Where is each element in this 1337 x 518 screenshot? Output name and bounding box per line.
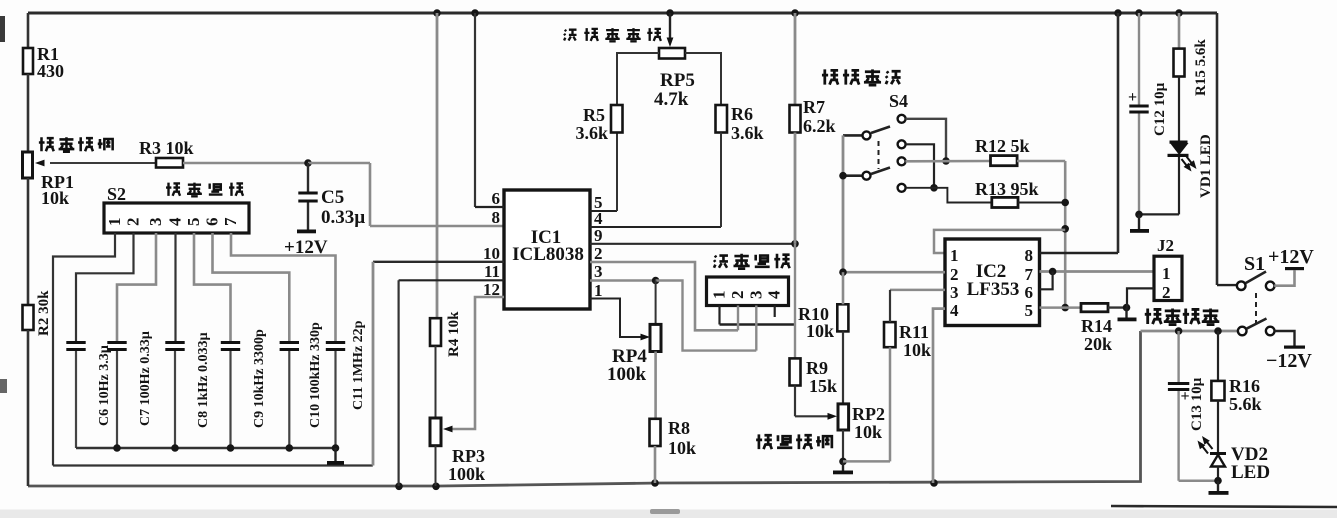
- svg-text:8: 8: [492, 208, 501, 227]
- svg-text:R4 10k: R4 10k: [446, 311, 462, 357]
- switch S1 upper pole: [1237, 281, 1246, 290]
- junction pin5/vert: [1061, 304, 1069, 312]
- junction top rail x437: [433, 9, 441, 17]
- wire left rail mid1: [27, 74, 30, 152]
- svg-text:C10 100kHz 330p: C10 100kHz 330p: [308, 322, 323, 428]
- wire S2 pin2 to C6: [76, 233, 134, 341]
- svg-text:R3 10k: R3 10k: [139, 138, 194, 158]
- junction c2/c4: [930, 184, 938, 192]
- svg-text:7: 7: [221, 217, 240, 226]
- svg-text:10k: 10k: [668, 438, 696, 458]
- wire output bus: [1141, 330, 1239, 333]
- svg-text:4: 4: [765, 290, 784, 299]
- svg-text:RP5: RP5: [660, 70, 695, 91]
- capacitor C7: [107, 341, 126, 344]
- LED VD2: [1210, 452, 1226, 455]
- arrow VD1 emission 1: [1182, 159, 1189, 168]
- junction top rail x1139: [1135, 9, 1143, 17]
- resistor R12: [991, 156, 1018, 166]
- wire C13 bottom to VD2 node: [1179, 479, 1218, 482]
- wire VD1 to C12 node: [1139, 213, 1179, 215]
- wire IC2 pin8: [1040, 252, 1119, 254]
- wire rail to S1 upper: [1217, 284, 1238, 286]
- potentiometer RP4 body: [650, 324, 661, 351]
- wire stub to ground: [1125, 308, 1127, 318]
- lever S4 pole2: [871, 168, 890, 175]
- svg-text:3: 3: [746, 291, 765, 300]
- wire VD1 to ground node: [1178, 157, 1180, 214]
- svg-text:3: 3: [146, 218, 165, 227]
- wire RP5 left to R5: [617, 53, 659, 105]
- arrow RP3 wiper: [443, 426, 453, 433]
- junction top rail x795: [791, 9, 799, 17]
- label 幅度细调 amplitude fine tune: [756, 434, 832, 449]
- svg-text:S1: S1: [1244, 253, 1265, 275]
- svg-text:1: 1: [1162, 264, 1171, 283]
- wire S4 common down to IC2 pin2 node: [842, 135, 845, 272]
- wire S2 pin7 to C11: [231, 233, 336, 341]
- junction c1/R12: [942, 157, 950, 165]
- svg-text:R7: R7: [803, 97, 825, 117]
- wire pin3 node down to RP4: [655, 281, 657, 325]
- svg-text:−12V: −12V: [1266, 350, 1312, 372]
- wire S2 pin6 to C10: [213, 233, 290, 341]
- wire RP3 to bottom rail: [435, 446, 437, 486]
- switch S2 selector box: [104, 203, 249, 233]
- potentiometer RP5 body: [659, 48, 685, 59]
- wire R10 to RP2: [842, 331, 844, 404]
- scan artifact left edge mid: [0, 379, 7, 393]
- wire S2 pin3 to C7: [117, 233, 156, 341]
- wire S3 pin4 stub: [774, 306, 776, 318]
- switch S1 upper contact: [1266, 282, 1275, 291]
- resistor R6: [716, 105, 728, 133]
- wire S2 pin4 to C8: [174, 233, 176, 341]
- junction R13/vert: [1061, 199, 1069, 207]
- capacitor C11: [326, 341, 345, 344]
- arrow RP4 wiper: [641, 334, 651, 341]
- wire ground node to R11: [843, 460, 890, 463]
- wire IC1 pin3 triangle: [590, 279, 656, 282]
- page edge line bottom right: [1111, 506, 1337, 507]
- switch S4 contact2: [898, 140, 906, 148]
- svg-text:3: 3: [950, 283, 959, 302]
- svg-text:C5: C5: [321, 187, 344, 208]
- wire R16 to VD2: [1217, 401, 1219, 453]
- switch S1 lower pole: [1238, 327, 1247, 336]
- svg-text:10k: 10k: [41, 188, 69, 208]
- svg-text:R13 95k: R13 95k: [975, 179, 1039, 199]
- scan artifact bottom center: [650, 509, 680, 514]
- svg-text:ICL8038: ICL8038: [512, 244, 584, 265]
- wire right rail to S1: [1216, 13, 1219, 285]
- arrow RP5 wiper: [667, 38, 674, 48]
- junction S4 poles: [839, 172, 847, 180]
- capacitor C9: [221, 341, 240, 344]
- svg-text:R14: R14: [1081, 316, 1112, 336]
- wire S4 c1 to R12 line: [906, 119, 947, 161]
- svg-text:R9: R9: [806, 358, 828, 378]
- switch S1 lower contact: [1266, 327, 1275, 336]
- junction R14/J2pin2/ground: [1123, 304, 1131, 312]
- junction top rail x1179: [1175, 9, 1183, 17]
- svg-text:4.7k: 4.7k: [654, 89, 689, 110]
- label 频率选择 frequency select: [166, 183, 243, 197]
- wire feedback vertical: [1064, 161, 1067, 308]
- wire S2 pin1 down-left: [53, 233, 115, 466]
- switch S4 contact1: [898, 115, 906, 123]
- svg-text:C12 10µ: C12 10µ: [1152, 82, 1168, 136]
- svg-text:LED: LED: [1231, 462, 1270, 483]
- potentiometer RP2 body: [838, 404, 849, 430]
- ground under RP2: [833, 471, 853, 475]
- label 信号输出 signal output: [1145, 308, 1220, 324]
- wire R13 right: [1018, 202, 1065, 204]
- svg-text:RP2: RP2: [852, 404, 885, 424]
- wire -12V bottom rail: [28, 331, 1141, 486]
- junction cap rail x175: [171, 444, 179, 452]
- arrow RP1 wiper: [35, 160, 45, 167]
- wire IC1 pin4 to R6: [590, 226, 721, 228]
- resistor R13: [992, 197, 1018, 207]
- wire stub to ground: [1138, 214, 1140, 229]
- junction feedback/vert: [1061, 225, 1069, 233]
- junction pin3/RP4: [652, 277, 660, 285]
- wire IC1 pin9 square wave: [590, 243, 795, 245]
- svg-text:2: 2: [594, 244, 603, 263]
- junction top rail x670: [666, 9, 674, 17]
- svg-text:3.6k: 3.6k: [575, 123, 608, 143]
- wire IC2 pin5 to R14: [1040, 306, 1082, 309]
- svg-text:12: 12: [483, 280, 500, 299]
- svg-text:6: 6: [1025, 283, 1034, 302]
- wire RP2 to ground node: [842, 430, 844, 461]
- wire R3 to C5 node: [183, 162, 308, 165]
- junction RP2/R11 ground: [839, 458, 847, 466]
- wire R9 to RP2 wiper: [794, 386, 796, 417]
- svg-text:R15 5.6k: R15 5.6k: [1193, 39, 1209, 96]
- wire +12V top rail: [28, 12, 1217, 15]
- capacitor C10: [280, 341, 299, 344]
- link S4 dashed: [878, 141, 880, 169]
- wire R6 to pin4: [720, 133, 722, 228]
- svg-text:+: +: [1128, 89, 1137, 106]
- svg-text:C7 100Hz 0.33µ: C7 100Hz 0.33µ: [138, 331, 153, 426]
- resistor R4: [430, 318, 441, 346]
- svg-text:6.2k: 6.2k: [803, 116, 836, 136]
- wire S3 pin2 stub: [737, 306, 739, 331]
- scan artifact left edge top: [0, 16, 5, 42]
- svg-text:8: 8: [1025, 246, 1034, 265]
- lever S1 upper: [1246, 272, 1266, 284]
- resistor R11: [884, 322, 896, 347]
- svg-text:C8 1kHz 0.033µ: C8 1kHz 0.033µ: [196, 332, 211, 428]
- ground under R14 node: [1118, 318, 1137, 322]
- svg-text:430: 430: [37, 61, 64, 81]
- wire tap to R16: [1217, 331, 1219, 381]
- svg-text:C13 10µ: C13 10µ: [1189, 377, 1205, 431]
- svg-text:R11: R11: [899, 322, 929, 342]
- svg-text:C9 10kHz 3300p: C9 10kHz 3300p: [252, 329, 267, 428]
- capacitor C6: [66, 341, 85, 344]
- wire pin3 to S3 pin3: [656, 281, 757, 351]
- svg-text:2: 2: [950, 265, 959, 284]
- wire left rail top: [27, 13, 30, 48]
- wire left rail mid2: [27, 178, 30, 305]
- svg-text:7: 7: [1025, 265, 1034, 284]
- svg-text:2: 2: [124, 218, 143, 227]
- wire J2 pin2 down: [1127, 288, 1154, 307]
- junction cap rail x289.3: [286, 444, 294, 452]
- svg-text:6: 6: [492, 189, 501, 208]
- wire bend down: [369, 163, 372, 226]
- arrow VD2 emission 2: [1201, 444, 1209, 454]
- junction cap rail x230.5: [227, 444, 235, 452]
- op-amp IC1 ICL8038 box: [504, 190, 590, 309]
- junction VD2 ground node: [1214, 477, 1222, 485]
- svg-text:C11 1MHz 22p: C11 1MHz 22p: [351, 320, 366, 410]
- wire S3 pin1 stub: [718, 306, 720, 325]
- label 幅值衰减 amplitude attenuation: [822, 69, 901, 85]
- wire IC1 pin11: [399, 279, 504, 281]
- junction pin6/pin7: [1049, 268, 1057, 276]
- wire stub to ground: [842, 461, 844, 470]
- wire IC2 pin4 to bottom rail: [933, 309, 945, 483]
- wire pin8 up to top rail: [1117, 13, 1120, 253]
- wire IC1 pin6 stub: [475, 206, 504, 208]
- junction pin2 node: [839, 268, 847, 276]
- wire R11 top: [889, 290, 891, 322]
- potentiometer RP1 body: [23, 152, 33, 178]
- wire S4 c4 to R13: [906, 188, 992, 203]
- svg-text:20k: 20k: [1084, 334, 1112, 354]
- wire rail to R7: [794, 13, 797, 105]
- wire cap common rail: [76, 447, 336, 450]
- resistor R3: [156, 158, 183, 168]
- wire S2 pin5 to C9: [194, 233, 231, 341]
- junction node C5: [304, 159, 312, 167]
- wire R8 to bottom rail: [654, 446, 657, 483]
- wire R7 to pin9 junction: [794, 133, 797, 244]
- switch S4 contact3: [898, 157, 906, 165]
- wire pin9 node down to R9: [794, 244, 796, 359]
- svg-text:R16: R16: [1229, 376, 1260, 396]
- capacitor C13 electrolytic: [1177, 331, 1179, 382]
- link S1 dashed: [1255, 293, 1257, 324]
- wire C11 to ground: [334, 448, 336, 461]
- svg-text:5: 5: [1025, 301, 1034, 320]
- wire top rail to R4: [436, 13, 439, 318]
- resistor R7: [790, 105, 801, 133]
- resistor R1: [23, 48, 33, 74]
- svg-text:4: 4: [950, 301, 959, 320]
- ground under C11: [327, 461, 344, 465]
- wire RP2 wiper horizontal: [795, 415, 831, 417]
- lever S4 pole1: [871, 127, 890, 134]
- svg-text:LF353: LF353: [967, 279, 1020, 300]
- svg-text:100k: 100k: [607, 364, 647, 385]
- switch S3 waveform selector box: [707, 277, 789, 306]
- wire pin2 node to R10: [842, 272, 845, 304]
- svg-text:6: 6: [203, 218, 222, 227]
- svg-text:10: 10: [483, 244, 500, 263]
- junction bottom rail x436: [432, 483, 440, 491]
- svg-text:1: 1: [594, 281, 603, 300]
- svg-text:2: 2: [728, 291, 747, 300]
- wire R14 right: [1108, 306, 1127, 308]
- wire IC1 pin5 stub: [590, 210, 617, 212]
- -12V supply bar: [1284, 346, 1305, 349]
- wire VD2 to node: [1217, 467, 1219, 481]
- junction R16 tap: [1214, 327, 1222, 335]
- arrow RP2 wiper: [828, 413, 838, 420]
- wire S4 c2 down: [906, 144, 935, 188]
- potentiometer RP3 body: [430, 418, 441, 446]
- svg-text:5.6k: 5.6k: [1229, 394, 1262, 414]
- wire RP5 right to R6: [685, 53, 721, 105]
- LED VD1: [1170, 141, 1188, 144]
- wire IC2 pin2 input: [843, 271, 945, 274]
- wire RP4 to R8: [654, 352, 657, 419]
- label 波型选择 waveform select: [714, 254, 790, 269]
- svg-text:4: 4: [166, 217, 185, 226]
- op-amp IC2 LF353 box: [945, 239, 1040, 326]
- switch S4 pole1 contact: [863, 131, 871, 139]
- svg-text:S2: S2: [107, 184, 126, 204]
- svg-text:RP3: RP3: [452, 446, 485, 466]
- svg-text:R8: R8: [668, 418, 690, 438]
- svg-text:R6: R6: [731, 104, 753, 124]
- svg-text:0.33µ: 0.33µ: [321, 207, 365, 228]
- svg-text:9: 9: [594, 226, 603, 245]
- wire IC2 pin1 feedback: [934, 230, 1065, 253]
- resistor R16: [1211, 381, 1224, 401]
- ground under C12: [1130, 229, 1149, 233]
- capacitor C8: [165, 341, 184, 344]
- +12V supply bar at C5: [297, 230, 316, 234]
- wire left rail bottom: [27, 330, 30, 486]
- wire top rail to IC1 pin6: [474, 13, 476, 207]
- wire S3 pin3 stub: [755, 306, 757, 351]
- wire S4 pole1: [843, 134, 863, 137]
- wire R12 right: [1017, 160, 1065, 163]
- wire to IC1 pin8: [370, 225, 504, 228]
- wire IC1 pin2 sine to S3 pin2: [590, 262, 738, 330]
- resistor R2: [23, 305, 34, 330]
- svg-text:J2: J2: [1157, 236, 1174, 255]
- switch S4 contact4: [898, 184, 906, 192]
- page bottom band: [0, 510, 1337, 518]
- wire R15 to VD1: [1178, 77, 1180, 141]
- arrow VD2 emission 1: [1205, 440, 1213, 450]
- wire S3 pin1 to square node: [720, 323, 796, 325]
- wire stub to ground: [1217, 481, 1219, 491]
- wire S1 upper to +12V: [1274, 270, 1294, 285]
- svg-text:10k: 10k: [854, 422, 882, 442]
- junction C12/VD1: [1135, 211, 1143, 219]
- junction C13 tap: [1175, 327, 1183, 335]
- svg-text:5: 5: [184, 218, 203, 227]
- wire RP1 wiper to R3: [50, 162, 156, 164]
- ground under VD2: [1209, 491, 1229, 495]
- svg-text:1: 1: [710, 291, 729, 300]
- lever S1 lower: [1247, 319, 1267, 329]
- wire S2 common bottom line: [53, 464, 373, 466]
- svg-text:100k: 100k: [448, 464, 485, 484]
- svg-text:R2 30k: R2 30k: [36, 290, 52, 336]
- wire IC2 pin7 to J2: [1040, 270, 1155, 273]
- junction bottom rail x934: [930, 479, 938, 487]
- wire R11 bottom: [889, 347, 892, 461]
- connector J2 box: [1154, 256, 1182, 300]
- +12V supply bar: [1285, 267, 1304, 270]
- wire IC2 pin6 to pin7: [1040, 272, 1053, 290]
- svg-text:15k: 15k: [809, 376, 837, 396]
- svg-text:S4: S4: [889, 91, 908, 111]
- svg-text:VD1 LED: VD1 LED: [1198, 134, 1214, 198]
- wire S4 pole2: [843, 174, 863, 177]
- svg-text:10k: 10k: [903, 340, 931, 360]
- wire IC1 pin10 down to S2 common: [372, 262, 375, 466]
- junction bottom rail x655: [651, 479, 659, 487]
- resistor R9: [790, 358, 801, 385]
- wire IC1 pin12 to RP3 wiper: [448, 297, 504, 429]
- svg-text:+12V: +12V: [1268, 246, 1314, 268]
- resistor R8: [650, 419, 661, 446]
- junction cap rail x117: [113, 444, 121, 452]
- wire R4 to RP3: [435, 346, 437, 418]
- svg-text:10k: 10k: [806, 321, 834, 341]
- wire IC1 pin10: [373, 261, 504, 263]
- wire rail to RP5 wiper: [669, 13, 671, 39]
- wire S1 lower to -12V: [1275, 331, 1295, 346]
- wire IC1 pin11 down to bottom rail: [398, 280, 400, 486]
- label 频率细调 frequency fine tune: [39, 137, 113, 151]
- resistor R5: [611, 105, 623, 133]
- capacitor C12 electrolytic: [1138, 13, 1140, 105]
- junction bottom rail x399: [395, 483, 403, 491]
- wire S4 c3 to R12: [906, 160, 991, 163]
- junction pin9/R7: [791, 240, 799, 248]
- junction cap rail x335.5: [332, 444, 340, 452]
- svg-text:2: 2: [1162, 283, 1171, 302]
- svg-text:1: 1: [105, 218, 124, 227]
- resistor R15: [1174, 49, 1185, 77]
- arrow VD1 emission 2: [1187, 157, 1194, 166]
- svg-text:3.6k: 3.6k: [731, 123, 764, 143]
- resistor R14: [1081, 303, 1108, 311]
- svg-text:R5: R5: [583, 105, 605, 125]
- resistor R10: [837, 304, 848, 331]
- wire IC1 pin1 to RP4 wiper: [590, 299, 644, 338]
- junction top rail x475: [471, 9, 479, 17]
- svg-text:R12 5k: R12 5k: [975, 136, 1030, 156]
- svg-text:1: 1: [950, 246, 959, 265]
- svg-text:3: 3: [594, 262, 603, 281]
- switch S4 pole2 contact: [863, 172, 871, 180]
- wire rail to R15: [1178, 13, 1181, 49]
- svg-text:C6 10Hz 3.3µ: C6 10Hz 3.3µ: [97, 345, 112, 426]
- capacitor C5: [307, 163, 309, 192]
- junction top rail x1118: [1114, 9, 1122, 17]
- wire IC2 pin3 stub: [890, 289, 945, 292]
- wire pin5 up to R5: [616, 133, 618, 212]
- wire node to bend: [308, 162, 370, 165]
- label 波形占空比 duty cycle: [564, 28, 661, 41]
- svg-text:11: 11: [484, 262, 500, 281]
